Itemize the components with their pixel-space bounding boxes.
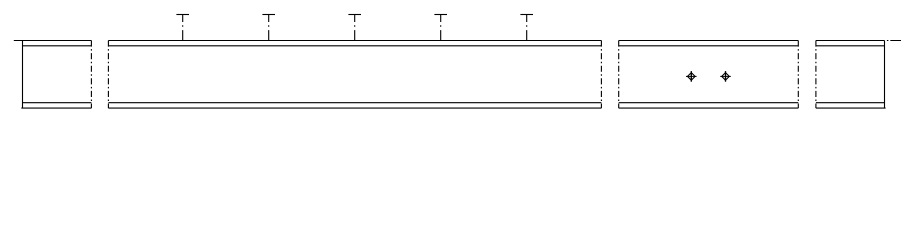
bolt symbol 2 cross xyxy=(720,75,731,77)
shear stud symbol 5 dash-dot stem xyxy=(526,15,528,41)
shear stud symbol 3 head bar xyxy=(348,14,361,16)
beam segment 4 bottom flange inner line xyxy=(816,102,885,104)
break line 6 (dash-dot cut line at left end of segment 4) xyxy=(815,41,817,109)
beam segment 3 top flange inner line xyxy=(619,45,799,47)
break line 5 (dash-dot cut line at right end of segment 3) xyxy=(797,41,799,109)
shear stud symbol 2 head bar xyxy=(262,14,275,16)
bolt symbol 2 diamond xyxy=(722,73,730,81)
shear stud symbol 4 dash-dot stem xyxy=(440,15,442,41)
beam segment 4 bottom flange outer line xyxy=(816,107,886,109)
break line 3 (dash-dot cut line at right end of segment 2) xyxy=(600,41,602,109)
beam segment 2 top flange outer line xyxy=(108,40,601,42)
beam segment 2 bottom flange outer line xyxy=(108,107,601,109)
beam segment 1 bottom flange inner line xyxy=(23,102,92,104)
shear stud symbol 1 dash-dot stem xyxy=(182,15,184,41)
grid line dash-dot continuation at top right xyxy=(885,40,901,42)
shear stud symbol 4 head bar xyxy=(434,14,447,16)
break line 1 (dash-dot cut line at right end of segment 1) xyxy=(90,41,92,109)
shear stud symbol 5 head bar xyxy=(520,14,533,16)
beam segment 1 bottom flange outer line xyxy=(21,107,91,109)
shear stud symbol 2 dash-dot stem xyxy=(268,15,270,41)
bolt symbol 1 diamond xyxy=(688,73,696,81)
beam segment 3 bottom flange outer line xyxy=(619,107,799,109)
beam segment 4 right end web line xyxy=(884,41,886,109)
bolt symbol 1 cross xyxy=(686,75,697,77)
beam segment 3 top flange outer line xyxy=(619,40,799,42)
beam segment 4 top flange inner line xyxy=(816,45,885,47)
beam segment 2 top flange inner line xyxy=(108,45,601,47)
shear stud symbol 1 head bar xyxy=(176,14,189,16)
break line 4 (dash-dot cut line at left end of segment 3) xyxy=(618,41,620,109)
beam segment 1 left end web line xyxy=(22,41,24,109)
shear stud symbol 3 dash-dot stem xyxy=(354,15,356,41)
beam segment 2 bottom flange inner line xyxy=(108,102,601,104)
beam segment 3 bottom flange inner line xyxy=(619,102,799,104)
break line 2 (dash-dot cut line at left end of segment 2) xyxy=(107,41,109,109)
beam segment 4 top flange outer line xyxy=(816,40,885,42)
beam segment 1 top flange inner line xyxy=(23,45,92,47)
beam segment 1 top flange outer line (with grid-line dash overshoot to left) xyxy=(14,40,92,42)
